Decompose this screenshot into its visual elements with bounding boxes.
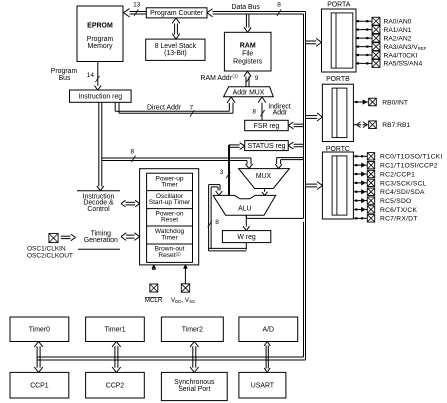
svg-text:Timer2: Timer2 [182,327,203,334]
svg-text:Timer1: Timer1 [104,327,125,334]
svg-text:RA0/AN0: RA0/AN0 [384,19,412,26]
svg-text:RC1/T1OSI/CCP2: RC1/T1OSI/CCP2 [380,163,438,170]
svg-text:RB7:RB1: RB7:RB1 [382,122,410,129]
svg-text:ALU: ALU [238,205,251,212]
svg-text:RA1/AN1: RA1/AN1 [384,27,412,34]
svg-text:Control: Control [87,206,110,213]
svg-text:Start-up Timer: Start-up Timer [149,199,191,206]
svg-text:RC3/SCK/SCL: RC3/SCK/SCL [380,180,427,187]
svg-text:8: 8 [252,109,256,116]
svg-text:9: 9 [255,75,259,82]
svg-text:EPROM: EPROM [87,23,113,30]
svg-text:PORTB: PORTB [326,76,350,83]
svg-text:RC6/TX/CK: RC6/TX/CK [380,207,417,214]
svg-text:PORTA: PORTA [327,1,351,8]
svg-text:RC5/SDO: RC5/SDO [380,198,411,205]
svg-text:W reg: W reg [237,234,256,241]
svg-text:Serial Port: Serial Port [178,386,210,393]
svg-text:13: 13 [133,2,141,9]
svg-text:Synchronous: Synchronous [174,379,215,386]
svg-text:RC4/SDI/SDA: RC4/SDI/SDA [380,189,425,196]
svg-text:Memory: Memory [88,43,113,50]
svg-text:CCP2: CCP2 [106,383,125,390]
svg-text:File: File [242,51,253,58]
svg-text:A/D: A/D [263,327,275,334]
svg-text:RA2/AN2: RA2/AN2 [384,35,412,42]
svg-text:FSR reg: FSR reg [254,123,280,130]
svg-text:Registers: Registers [233,58,263,65]
svg-text:Bus: Bus [59,75,71,82]
svg-text:8: 8 [215,219,219,226]
svg-text:RA3/AN3/VREF: RA3/AN3/VREF [384,44,427,51]
svg-text:MCLR: MCLR [145,297,163,304]
svg-text:7: 7 [189,105,193,112]
svg-text:RAM: RAM [240,43,256,50]
svg-text:Data Bus: Data Bus [232,4,261,11]
svg-text:8 Level Stack: 8 Level Stack [155,43,197,50]
svg-text:RC7/RX/DT: RC7/RX/DT [380,216,418,223]
svg-text:RB0/INT: RB0/INT [382,99,408,106]
svg-text:RA5/SS/AN4: RA5/SS/AN4 [384,61,423,68]
svg-text:Timer: Timer [161,181,178,188]
svg-text:RC0/T1OSO/T1CKI: RC0/T1OSO/T1CKI [380,154,442,161]
svg-text:Addr: Addr [273,110,288,117]
svg-text:Instruction reg: Instruction reg [78,94,122,101]
svg-text:Timer0: Timer0 [29,327,50,334]
svg-text:Direct Addr: Direct Addr [147,105,182,112]
svg-text:8: 8 [277,2,281,9]
svg-text:STATUS reg: STATUS reg [247,143,285,150]
svg-text:Program Counter: Program Counter [150,10,204,17]
svg-text:RC2/CCP1: RC2/CCP1 [380,171,415,178]
svg-text:8: 8 [130,149,134,156]
svg-text:OSC2/CLKOUT: OSC2/CLKOUT [27,253,73,260]
svg-text:Reset: Reset [161,217,178,224]
svg-text:USART: USART [251,383,275,390]
svg-text:MUX: MUX [256,173,272,180]
svg-text:RA4/T0CKI: RA4/T0CKI [384,52,418,59]
svg-text:Addr MUX: Addr MUX [233,90,265,97]
svg-text:(1): (1) [232,73,238,78]
svg-text:3: 3 [220,169,224,176]
svg-text:VDD, VSS: VDD, VSS [171,297,195,304]
svg-text:Timer: Timer [161,234,178,241]
svg-text:RAM Addr: RAM Addr [201,75,233,82]
svg-text:14: 14 [87,72,95,79]
svg-text:CCP1: CCP1 [30,383,49,390]
svg-text:Generation: Generation [84,237,118,244]
svg-text:(13-Bit): (13-Bit) [164,50,187,57]
